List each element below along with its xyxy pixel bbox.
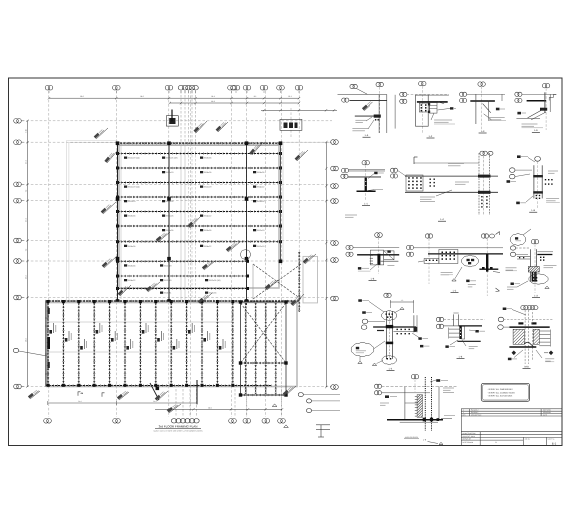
callout flag b8: [283, 385, 296, 396]
svg-text:W12x19: W12x19: [128, 200, 136, 203]
D9 corner mark top right: [496, 232, 500, 236]
D1 note texts: [355, 119, 366, 121]
grid bubble bottom s5: [189, 419, 194, 423]
D8 column dark bar: [377, 254, 380, 265]
delta D11b: [372, 363, 376, 365]
svg-text:W16x31: W16x31: [164, 292, 172, 295]
column: [116, 299, 120, 303]
column line x=169: [168, 143, 170, 301]
bubble D13 left1: [498, 317, 504, 322]
D7 column verticals: [533, 165, 535, 198]
svg-text:W18x35: W18x35: [128, 265, 136, 268]
slab edge upper block: [119, 145, 279, 288]
bay chord: [241, 362, 287, 364]
D3 tag: [496, 108, 500, 111]
delta D11 top: [400, 307, 404, 309]
beam label: [200, 229, 203, 231]
title block: [461, 409, 562, 446]
shaft box 2: [280, 119, 302, 130]
D2 column outline: [416, 95, 429, 126]
brace X2b: [241, 303, 287, 363]
grid bubble top 14: [295, 85, 303, 90]
D1 beam lines: [338, 94, 387, 96]
detail D1 beam-column corner: [338, 82, 396, 137]
bubble D7 top: [535, 156, 541, 161]
grid tail right: [283, 141, 330, 143]
detail D9 moment connection: [406, 232, 503, 297]
delta D9: [452, 279, 456, 281]
D13 top plate marks: [518, 322, 536, 324]
grid bubble top 2: [113, 85, 121, 90]
bubble D2 left1: [400, 92, 407, 96]
bridging line 2: [46, 351, 233, 353]
bubble D7 left2: [509, 174, 515, 179]
joist J1: [47, 303, 49, 385]
svg-text:W12x26 (18): W12x26 (18): [166, 157, 178, 160]
grid line cluster top x=188.5: [188, 91, 190, 143]
bay joist x=255.7: [255, 303, 257, 394]
D3 column lines: [475, 94, 477, 124]
D5 beam lines: [349, 169, 386, 171]
grid bubble left 2: [14, 140, 22, 145]
bubble between rows: [384, 293, 391, 297]
detail D12 brace connection: [436, 313, 485, 359]
delta plan 2: [284, 425, 289, 428]
bubble D9 left2: [406, 252, 413, 256]
D6 stiffener plates: [478, 175, 491, 178]
dimension line top A: [49, 97, 299, 99]
callout flag b1: [118, 285, 131, 296]
grid line H4: [22, 200, 332, 202]
svg-text:17-2: 17-2: [25, 160, 28, 163]
detail D7 column-beam connection: [507, 155, 560, 212]
D10 notes: [506, 267, 517, 269]
slab edge west double line v2: [68, 143, 70, 301]
D13 gusset bend: [524, 342, 533, 346]
D6 bolted end plate: [406, 175, 423, 191]
west wall column 2: [47, 308, 49, 314]
D6 column verticals: [478, 153, 480, 215]
joist J7: [139, 303, 141, 385]
svg-text:W12x19: W12x19: [164, 279, 172, 282]
beam B1: [118, 153, 281, 155]
callout flag a8: [295, 150, 308, 161]
beam label: [205, 292, 208, 294]
callout flag b4: [291, 294, 304, 306]
grid bubble right 3: [331, 184, 339, 189]
detail D2 column splice: [400, 81, 456, 138]
grid line H3: [22, 183, 332, 185]
D4 dark beam seg: [527, 100, 547, 102]
callout flag a11: [303, 253, 316, 264]
grid bubble left 5: [14, 238, 22, 243]
joist label: [157, 338, 160, 342]
grid line cluster bottom x=281.5: [281, 385, 283, 417]
joist J2: [62, 303, 64, 385]
bubble D10 left2: [510, 252, 515, 256]
bubble D5 left1: [341, 168, 348, 172]
grid line V7: [265, 91, 267, 417]
beam B10: [118, 288, 248, 290]
detail D5 hanger column: [341, 161, 385, 206]
grid bubble top 3: [165, 85, 173, 90]
column: [245, 141, 249, 145]
bottom chord lower block: [46, 385, 273, 387]
callout flag a2: [101, 202, 116, 214]
beam B3: [118, 182, 281, 184]
D2 side bracket: [429, 103, 437, 114]
joist label: [173, 346, 176, 350]
joist J3: [78, 303, 80, 385]
bubble D4 top: [542, 84, 549, 88]
grid bubble top 4: [178, 85, 184, 90]
svg-text:W12x19: W12x19: [164, 265, 172, 268]
slab edge west double line h2: [69, 142, 118, 144]
beam B9: [118, 275, 248, 277]
delta D14: [439, 442, 443, 444]
bubble D14 left1: [374, 384, 381, 388]
grid bubble bottom d6: [278, 419, 286, 424]
D9 shear plate: [439, 250, 458, 264]
beam label: [160, 292, 163, 294]
beam label: [200, 171, 203, 173]
beam label: [124, 279, 127, 281]
dimension line top C: [261, 109, 337, 111]
D9 corner mark bottom right: [496, 288, 500, 292]
grid bubble bottom d5: [262, 419, 270, 424]
D2 bolt bracket: [419, 103, 429, 112]
bubble D6 left2: [390, 174, 397, 178]
top chord lower block: [46, 300, 300, 302]
bubble D9 left1: [406, 245, 413, 249]
delta D11a: [358, 361, 362, 363]
bubble pr2: [306, 409, 311, 413]
D11 column dark bands: [386, 325, 393, 328]
detail D11 column w/ beam & clouds: [351, 299, 429, 371]
detail D4 corner connection: [515, 84, 556, 133]
bubble D9 top1: [425, 234, 432, 238]
column: [245, 257, 249, 261]
grid line cluster top x=185: [184, 91, 186, 143]
svg-text:W12x19: W12x19: [257, 245, 265, 248]
svg-text:15-6: 15-6: [25, 275, 28, 278]
beam label: [253, 229, 256, 231]
stair column: [156, 387, 160, 391]
beam label: [200, 215, 203, 217]
beam label: [205, 279, 208, 281]
cloud D11 note: [351, 342, 374, 356]
D2 leader arrow: [438, 102, 444, 104]
D14 tag left: [385, 395, 389, 398]
delta D10: [545, 286, 549, 288]
D14 column hatch strip: [417, 395, 422, 418]
svg-text:W18x35: W18x35: [209, 292, 217, 295]
grid bubble bottom s4: [185, 419, 190, 423]
grid bubble bottom s6: [194, 419, 199, 423]
D2 right tag: [450, 107, 453, 109]
D14 anchor rods dotted: [424, 377, 426, 431]
D9 beam seat: [479, 268, 498, 270]
callout flag b2: [198, 293, 212, 304]
bubble D11 left1: [362, 319, 368, 324]
column: [167, 197, 171, 201]
callout flag a1: [104, 150, 118, 163]
bubble D6 left1: [390, 168, 397, 172]
beam B5: [118, 211, 281, 213]
bubble pr1: [306, 399, 311, 403]
svg-text:3rd FLOOR FRAMING PLAN: 3rd FLOOR FRAMING PLAN: [159, 424, 198, 428]
bubble D4 left2: [515, 98, 522, 102]
svg-text:W12x19 (14): W12x19 (14): [128, 157, 140, 160]
braced bay upper right: [253, 264, 301, 299]
grid line cluster bottom x=176: [175, 385, 177, 417]
detail D14 column base anchor: [374, 375, 457, 445]
callout flag a0: [94, 128, 108, 139]
west callout bubble: [13, 348, 18, 352]
D2 bottom note: [434, 119, 452, 121]
svg-text:W16x26: W16x26: [128, 245, 136, 248]
bay joist x=275.8: [275, 303, 277, 394]
svg-text:- VERIFY ALL ELEVATIONS: - VERIFY ALL ELEVATIONS: [487, 395, 513, 398]
top chord upper block: [117, 142, 281, 144]
D8 beam lines: [353, 247, 399, 249]
D12 dark bar w/ bolts: [459, 326, 461, 339]
D8 bolt ticks: [370, 255, 373, 263]
grid bubble top 7: [189, 85, 195, 90]
D12 beam top: [443, 325, 458, 327]
svg-text:W14x22: W14x22: [257, 186, 265, 189]
detail D8 beam to column: [346, 233, 399, 281]
D11 column verticals: [385, 311, 387, 359]
callout flag a7: [187, 217, 200, 228]
D4 dark blob: [540, 108, 547, 111]
grid line H7: [22, 297, 332, 299]
bubble D2 top: [419, 81, 426, 85]
cloud D11 top: [382, 311, 397, 321]
beam label: [162, 215, 165, 217]
D13 bolt field left: [513, 329, 524, 344]
bubble D1 left: [342, 98, 349, 102]
svg-text:7-10: 7-10: [25, 129, 28, 132]
top chord inner line: [117, 145, 281, 147]
D4 diagonals: [528, 109, 544, 118]
bubble D13 top1: [521, 305, 528, 309]
bubble D14 top: [411, 375, 418, 379]
D3 note: [489, 117, 505, 119]
beam label: [162, 200, 165, 202]
beam label: [200, 157, 203, 159]
D6 camber arrow: [413, 157, 415, 164]
dimension line left: [27, 121, 29, 387]
bubble D10 left1: [510, 246, 515, 250]
grid bubble left 4: [14, 198, 22, 203]
grid line V4: [190, 91, 192, 417]
svg-text:7-2: 7-2: [25, 249, 28, 252]
bubble D3 left2: [460, 98, 467, 102]
grid bubble right 2: [331, 166, 339, 171]
grid bubble top 11: [243, 85, 251, 90]
cloud D10 top: [510, 234, 526, 246]
column bay: [284, 393, 287, 396]
D13 notes: [508, 358, 512, 361]
kicker mark 2: [102, 393, 105, 397]
grid bubble bottom s2: [176, 419, 181, 423]
kicker arrow 1: [81, 392, 84, 393]
D10 inner dark bars: [532, 268, 534, 282]
svg-text:7-2: 7-2: [25, 190, 28, 193]
column: [167, 257, 171, 261]
grid line V2: [115, 91, 117, 417]
grid line V6: [246, 91, 248, 417]
grid bubble left 8: [14, 384, 22, 389]
D9 column dark bar: [486, 254, 488, 272]
beam label: [253, 245, 256, 247]
column: [167, 299, 171, 303]
D13 lower beam: [509, 346, 536, 348]
joist J8: [155, 303, 157, 385]
svg-text:E-1: E-1: [552, 441, 557, 445]
beam label: [124, 157, 127, 159]
callout flag a13: [202, 260, 215, 270]
grid bubble left 1: [14, 119, 22, 124]
bridging line 1: [46, 321, 233, 323]
D4 column: [544, 92, 546, 113]
joist label: [96, 330, 99, 334]
grid bubble top 12: [260, 85, 268, 90]
D10 seat angle left: [517, 256, 530, 258]
slab edge west double line h1: [67, 139, 118, 141]
grid bubble right 8: [331, 385, 339, 390]
svg-text:9-2: 9-2: [254, 95, 257, 98]
svg-text:W16x26: W16x26: [166, 229, 174, 232]
slab edge west double line v1: [66, 141, 68, 302]
grid bubble right 1: [331, 140, 339, 145]
svg-text:W14x22: W14x22: [204, 215, 212, 218]
D6 bolt group 2: [430, 179, 435, 187]
column line x=280.5: [280, 143, 282, 262]
joist label: [65, 338, 68, 342]
D4 tag: [517, 112, 521, 115]
beam label: [253, 186, 256, 188]
detail D13 heavy brace connection: [498, 305, 555, 368]
column bay: [239, 361, 242, 364]
D7 notes: [546, 198, 559, 200]
grid bubble right 6: [331, 258, 339, 263]
detail D10 column base w/ clouds: [506, 229, 557, 298]
D14 base plate: [387, 419, 443, 421]
D9 left bracket: [424, 259, 439, 264]
beam label: [124, 264, 127, 266]
callout flag a4: [194, 121, 207, 133]
joist label: [188, 330, 191, 334]
D2 top beam line: [428, 94, 449, 96]
short dim: [48, 402, 197, 404]
note box verify dimensions: [481, 383, 529, 401]
west wall column 3: [47, 362, 49, 368]
bubble D7 left1: [509, 168, 515, 173]
joist strip x=299: [298, 252, 300, 312]
bubble D8 left1: [346, 245, 353, 249]
D14 leader lines: [382, 385, 458, 387]
column: [245, 197, 249, 201]
beam label: [160, 264, 163, 266]
D4 note: [522, 123, 538, 125]
corridor wall x=185: [184, 143, 186, 301]
grid line cluster top x=192: [191, 91, 193, 143]
bubble D8 left2: [346, 252, 353, 256]
beam label: [162, 229, 165, 231]
beam label: [162, 157, 165, 159]
joist J12: [216, 303, 218, 385]
cloud D9: [462, 255, 479, 267]
grid line cluster top x=181: [180, 91, 182, 143]
grid line cluster top x=195.5: [195, 91, 197, 143]
grid bubble bottom s1: [171, 419, 176, 423]
svg-text:JL: JL: [495, 441, 497, 444]
grid bubble bottom s3: [180, 419, 185, 423]
grid bubble bottom d3: [229, 419, 237, 424]
grid bubble top 1: [45, 85, 53, 90]
D10 splice dark cluster: [528, 267, 539, 273]
corridor grid x=195.5: [195, 143, 197, 301]
beam label: [124, 186, 127, 188]
column bay: [239, 300, 242, 303]
grid line cluster bottom x=196.5: [196, 385, 198, 417]
joist J4: [93, 303, 95, 385]
D1 leader from top-left bubble: [357, 89, 368, 95]
svg-text:W18x35: W18x35: [204, 157, 212, 160]
beam B4: [118, 196, 281, 198]
grid line V8: [281, 91, 283, 417]
grid bubble left 3: [14, 182, 22, 187]
D1 column lines: [378, 95, 380, 134]
flag D1: [362, 100, 373, 111]
bubble D9 top2: [481, 234, 488, 238]
grid bubble bottom d1: [44, 419, 52, 424]
bubble D4 left1: [515, 92, 522, 96]
grid bubble top 9: [228, 85, 236, 90]
svg-text:W18x35: W18x35: [204, 229, 212, 232]
column bay: [284, 300, 287, 303]
dimension line top B: [170, 102, 299, 104]
stair kicker: [150, 383, 159, 400]
joist J11: [201, 303, 203, 385]
revision cloud plan: [240, 249, 250, 259]
svg-text:23-4: 23-4: [211, 95, 215, 98]
bubble D14 left2: [374, 391, 381, 395]
joist label: [126, 346, 129, 350]
cloud D10 bottom: [529, 274, 548, 284]
brace X2a: [241, 303, 287, 363]
D12 bolt tick rows: [449, 329, 460, 337]
tiny corner detail: [316, 425, 330, 437]
bubble D1 top-left: [350, 84, 357, 88]
D11 beam: [373, 326, 416, 328]
grid bubble bottom d4: [243, 419, 251, 424]
joist J5: [109, 303, 111, 385]
column: [116, 257, 120, 261]
beam label: [253, 171, 256, 173]
corridor grid x=188.5: [188, 143, 190, 301]
bay bottom chord: [241, 394, 287, 396]
bubble D9 top3: [490, 234, 495, 238]
D14 tag right: [436, 379, 440, 382]
svg-text:44-8: 44-8: [211, 100, 215, 103]
bubble D3 left1: [460, 92, 467, 96]
svg-text:W18x35: W18x35: [257, 200, 265, 203]
grid bubble top 6: [186, 85, 192, 90]
grid line H1: [22, 120, 332, 122]
